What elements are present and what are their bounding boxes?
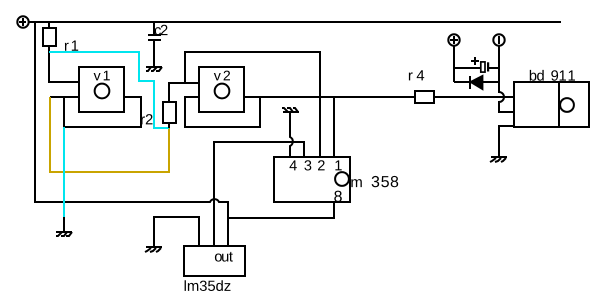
- wire + terminal down to diode anode line: [453, 46, 455, 82]
- wire r1 bottom to v1 upper-left pin: [49, 46, 79, 82]
- label pin2: [318, 160, 325, 170]
- label v1: [94, 71, 110, 81]
- wire bd911 bottom-left corner to ground: [499, 126, 514, 157]
- wire lm358 pin8 to lm35dz pin3 node: [228, 202, 334, 218]
- component v2 lower body: [185, 97, 260, 127]
- label r1: [65, 41, 78, 51]
- terminal + (supply) top left: [17, 16, 28, 27]
- label bd911: [530, 70, 575, 81]
- wire r2 top to v2 upper-left pin: [169, 83, 199, 102]
- lamp circle v2: [215, 84, 230, 99]
- wire lm35dz pin1 to ground: [154, 217, 199, 247]
- wire top rail: [28, 21, 561, 23]
- label pin1: [335, 160, 341, 170]
- label out: [215, 252, 233, 262]
- capacitor plates: [481, 62, 485, 72]
- transistor circle bd911: [560, 98, 574, 112]
- resistor r1: [43, 28, 56, 46]
- ground under v1/cyan: [56, 232, 72, 236]
- lamp circle v1: [95, 84, 110, 99]
- label c2: [155, 25, 168, 35]
- resistor r1 top stub: [48, 22, 50, 28]
- wire left rail down and along bottom to lm35dz pin3 (hop over node at x214.3): [35, 22, 228, 246]
- diode wire: [454, 81, 499, 83]
- label pin8: [334, 191, 342, 202]
- wire - terminal down to cap level: [498, 45, 500, 82]
- diode triangle: [471, 76, 483, 89]
- diode cathode bar: [469, 76, 471, 89]
- terminal - (battery negative) top right: [493, 34, 504, 45]
- component v1 upper body: [79, 67, 124, 112]
- wire - rail down to bd911 lower-left pin (hop over r4 wire): [499, 82, 514, 112]
- op-amp U1 lm358 body: [274, 157, 350, 202]
- resistor r2: [163, 102, 176, 123]
- sensor lm35dz body: [184, 246, 245, 276]
- label r2: [141, 114, 152, 124]
- wire ground to lm358 pin4 (hop over pin3 wire): [290, 112, 293, 157]
- label v2: [214, 71, 230, 81]
- terminal + (battery positive) top right: [448, 34, 459, 45]
- component v1 lower body: [64, 97, 141, 127]
- label pin4: [290, 160, 297, 170]
- label m358: [351, 176, 398, 187]
- label lm35dz: [185, 280, 231, 291]
- label pin3: [304, 160, 311, 170]
- wire (cyan) r1 bottom node to r2 bottom node: [49, 52, 169, 128]
- resistor r4: [415, 91, 434, 103]
- ground under bd911: [490, 157, 507, 162]
- ground (flipped) above lm358 pin4: [282, 108, 299, 112]
- wire r4 to bd911 base pin: [434, 96, 514, 98]
- wire v2 lower-right corner to r4: [260, 96, 415, 98]
- wire (olive) v1 lower-left pin to r2 bottom node: [50, 97, 169, 172]
- ground under lm35dz pin1 wire: [145, 247, 162, 252]
- wire (cyan) v1 bottom-left corner down to ground: [63, 127, 65, 217]
- capacitor c2 top stub: [153, 22, 155, 34]
- wire v1 lower-left pin: [50, 96, 64, 98]
- capacitor c2 bottom stub: [153, 41, 155, 66]
- capacitor + polarity mark: [471, 57, 479, 65]
- wire stub cyan to ground: [63, 217, 65, 232]
- capacitor c2 plates: [148, 35, 161, 40]
- transistor bd911 internal divider: [558, 82, 560, 127]
- wire r2 bottom node stub: [168, 123, 170, 128]
- wire branch down to lm358 pin1: [333, 97, 335, 157]
- op-amp circle lm358: [335, 172, 349, 186]
- wire lm358 pin3 to lm35dz pin2: [214, 142, 304, 246]
- component v2 upper body: [199, 67, 244, 112]
- transistor bd911 body: [514, 82, 589, 127]
- label r4: [409, 70, 424, 80]
- ground under c2: [146, 67, 162, 71]
- capacitor (polarized) between rails: [454, 67, 499, 69]
- wire branch from r2-v2 wire up over to lm358 pin2: [185, 52, 320, 157]
